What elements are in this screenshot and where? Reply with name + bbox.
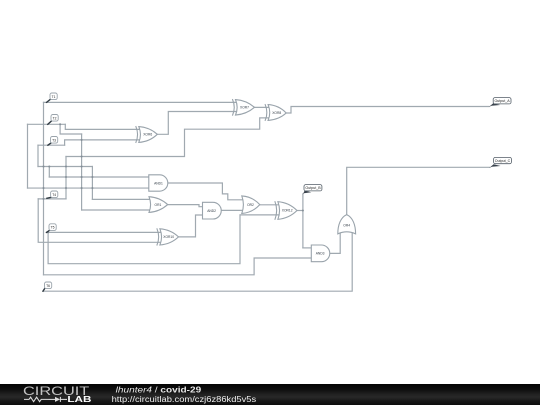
wire OR2 output to XOR12 top input — [260, 204, 279, 206]
wire bus to AND1 top input — [49, 176, 149, 178]
wire T1 bottom bus to AND3 bottom input — [44, 258, 312, 275]
wire to OR1 top input — [92, 198, 153, 200]
wire XOR7 output to XOR8 top input — [255, 106, 270, 108]
junction node bus2 drop on bus1 — [48, 165, 50, 167]
junction on T5 wire at branch — [47, 231, 49, 233]
junction node XOR12 output — [302, 209, 304, 211]
flag T5 — [47, 224, 57, 233]
or-gate OR2 — [242, 196, 260, 214]
wire T2 branch down to link — [60, 124, 82, 134]
wire T1 vertical branch down left side — [43, 102, 45, 274]
svg-text:LAB: LAB — [67, 394, 91, 404]
and-gate AND3 — [311, 245, 329, 262]
xor-gate XOR7 — [233, 100, 255, 116]
wire AND1 output to OR2 top input — [168, 183, 246, 200]
junction node x92.4 vertical crosses bus2 — [91, 176, 93, 178]
wire T2 vertical to lower bus — [27, 124, 29, 188]
wire XOR12 output to junction — [297, 210, 303, 212]
junction node x66 vertical crosses bus2 — [65, 176, 67, 178]
xor-gate XOR12 — [275, 202, 297, 220]
wire T4 horizontal — [38, 198, 66, 200]
junction on T2 wire at link branch — [59, 123, 61, 125]
svg-text:http://circuitlab.com/czj6z86k: http://circuitlab.com/czj6z86kd5v5s — [112, 395, 257, 404]
xor-gate XOR10 — [157, 229, 179, 245]
wire T1 to XOR7 top input — [44, 101, 237, 103]
wire OR4 output to Output_C — [347, 167, 490, 214]
wire junction up to Output_B — [302, 194, 304, 248]
junction node x66 vertical crosses bus1 — [65, 165, 67, 167]
wire drop from bus — [48, 167, 50, 178]
wire T2 horizontal — [28, 123, 66, 125]
wire T5 branch to XOR12 bottom input — [48, 215, 279, 264]
wire XOR8 output to Output_A — [286, 107, 489, 114]
flag T3 — [48, 137, 58, 146]
junction node x81.6 vertical crosses bus0a — [81, 155, 83, 157]
xor-gate XOR6 — [136, 127, 157, 143]
wire AND2 output to OR2 bottom input — [221, 209, 246, 211]
xor-gate XOR8 — [265, 105, 286, 121]
wire XOR6 output to XOR7 bottom input — [157, 112, 236, 135]
wire AND3 output to OR4 left input — [330, 229, 340, 254]
flag Output_C — [489, 157, 511, 168]
wire T2 step down to XOR6 top input — [65, 124, 140, 129]
and-gate AND2 — [203, 202, 222, 219]
wire T6 to OR4 right input — [43, 229, 352, 292]
CircuitLab logo resistor and diode symbol — [24, 397, 67, 402]
junction node x92.4 vertical crosses bus3 — [91, 187, 93, 189]
wire bus0a to XOR8 bottom input — [66, 118, 269, 157]
svg-text:lhunter4 / covid-29: lhunter4 / covid-29 — [116, 384, 202, 394]
wire OR1 output to AND2 top input — [168, 205, 203, 207]
junction node T1 vertical crosses bus1 — [42, 165, 44, 167]
wire vertical T4 up to bus0a corner — [65, 157, 67, 199]
junction node x66 vertical crosses bus3 — [65, 187, 67, 189]
wire bus to AND1 bottom input — [28, 187, 149, 189]
and-gate AND1 — [149, 175, 168, 191]
flag Output_A — [489, 98, 511, 107]
wire vertical to OR1 top input — [91, 167, 93, 200]
junction node x81.6 vertical crosses bus3 — [81, 187, 83, 189]
wire T4 branch down to XOR10 bottom input — [38, 199, 160, 242]
wire T5 to XOR10 top input — [47, 231, 161, 233]
flag T4 — [47, 191, 58, 198]
footer banner — [0, 384, 540, 405]
junction node x81.6 vertical crosses bus1 — [81, 165, 83, 167]
wire drop to OR1 bottom input — [81, 134, 83, 210]
flag T6 — [43, 282, 52, 291]
wire bus segment — [38, 166, 92, 168]
or-gate OR1 — [149, 197, 168, 213]
wire junction to AND3 top input — [303, 247, 311, 249]
wire XOR10 output to AND2 bottom input — [179, 215, 203, 237]
or-gate OR4 vertical — [338, 215, 356, 234]
junction node link meets XOR6 input wire — [81, 139, 83, 141]
flag Output_B — [303, 185, 322, 195]
flag T1 — [47, 93, 58, 102]
junction node x81.6 vertical crosses bus2 — [81, 176, 83, 178]
wire T3 step up to XOR6 bottom input — [65, 140, 141, 145]
wire T3 horizontal — [38, 144, 65, 146]
junction node T1 vertical crosses T4 wire — [42, 198, 44, 200]
junction node T1 vertical crosses bus3 — [42, 187, 44, 189]
flag T2 — [48, 115, 58, 125]
wire to OR1 bottom input — [82, 209, 153, 211]
wire T3 vertical to bus — [37, 145, 39, 166]
